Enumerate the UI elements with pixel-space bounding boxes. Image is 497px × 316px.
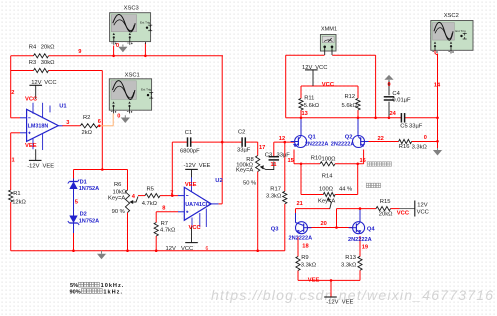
ground XSC1 <box>117 113 130 123</box>
svg-text:R12: R12 <box>345 94 356 100</box>
svg-text:R14: R14 <box>322 173 333 179</box>
transistor Q2 <box>331 118 369 148</box>
svg-text:-12V: -12V <box>326 299 338 305</box>
wire net9 vertical to C1-C2 junction <box>221 56 223 142</box>
svg-text:D2: D2 <box>80 212 87 218</box>
node 20 label <box>321 221 327 227</box>
resistor R12 <box>342 94 361 110</box>
annotation reduce linear region <box>367 162 391 166</box>
svg-text:2N2222A: 2N2222A <box>331 142 355 148</box>
svg-text:VEE: VEE <box>308 277 320 283</box>
svg-text:Key=A: Key=A <box>318 198 335 204</box>
svg-text:Ext Trig: Ext Trig <box>455 29 466 33</box>
svg-text:18: 18 <box>302 244 308 250</box>
wire net8 row <box>156 212 178 223</box>
svg-text:VCC: VCC <box>322 82 335 88</box>
svg-text:R2: R2 <box>83 115 90 121</box>
svg-text:21: 21 <box>297 201 303 207</box>
wire Q4 emitter <box>359 236 361 280</box>
svg-text:3.3kΩ: 3.3kΩ <box>266 193 282 199</box>
svg-text:Q4: Q4 <box>367 227 376 233</box>
svg-text:0: 0 <box>424 135 427 141</box>
svg-text:20kΩ: 20kΩ <box>41 44 55 50</box>
power VCC U2 <box>166 225 209 252</box>
svg-text:Q3: Q3 <box>271 226 280 232</box>
node 2 label <box>11 90 14 96</box>
svg-text:90%: 90% <box>70 289 81 295</box>
wire VCC loop top <box>301 86 358 98</box>
svg-text:1N752A: 1N752A <box>79 219 100 225</box>
svg-text:0: 0 <box>116 43 119 49</box>
svg-text:VEE: VEE <box>199 163 211 169</box>
wire C4 stem upper <box>388 81 390 96</box>
oscilloscope XSC2 <box>431 13 473 53</box>
svg-text:0.01µF: 0.01µF <box>392 98 411 104</box>
wire Q2 emitter <box>363 150 365 164</box>
svg-text:R15: R15 <box>380 199 391 205</box>
svg-text:0: 0 <box>388 82 391 88</box>
svg-text:50 %: 50 % <box>243 180 256 186</box>
svg-text:VCC: VCC <box>189 225 202 231</box>
node 24 label <box>390 111 397 117</box>
ground above C4 <box>384 75 393 88</box>
wire R14 loop <box>301 164 358 195</box>
svg-text:12V: 12V <box>31 80 41 86</box>
wire net1 column <box>11 133 20 251</box>
svg-text:C1: C1 <box>185 130 192 136</box>
svg-text:3.3kΩ: 3.3kΩ <box>341 263 357 269</box>
wire net9 top row <box>11 55 223 57</box>
svg-text:R4: R4 <box>29 44 37 50</box>
ground right column <box>424 135 442 156</box>
annotation adjust symmetry <box>366 183 380 187</box>
power VEE U2 <box>184 163 211 188</box>
svg-text:D1: D1 <box>80 179 87 185</box>
svg-text:VCC: VCC <box>181 246 193 252</box>
wire R8 bottom <box>257 172 259 251</box>
svg-text:R7: R7 <box>161 221 168 227</box>
transistor Q4 <box>348 209 375 243</box>
annotation frequency note line2 <box>70 289 124 296</box>
svg-text:90 %: 90 % <box>112 209 125 215</box>
annotation frequency note line1 <box>70 282 124 289</box>
svg-text:Ext Trig: Ext Trig <box>140 21 151 25</box>
svg-text:R6: R6 <box>114 182 121 188</box>
node 19 label <box>362 245 368 251</box>
wire net12 row <box>274 141 295 143</box>
svg-text:24: 24 <box>390 111 397 117</box>
svg-text:-12V: -12V <box>27 163 39 169</box>
svg-text:2kΩ: 2kΩ <box>82 130 93 136</box>
svg-text:VEE: VEE <box>25 143 37 149</box>
svg-text:12V: 12V <box>166 246 176 252</box>
node 22 label <box>378 136 384 142</box>
wire bottom rail <box>11 250 285 252</box>
node 13 label <box>302 111 308 117</box>
multimeter XMM1 <box>320 26 337 55</box>
wire XSC3 A stub wire <box>113 46 115 56</box>
resistor R15 <box>376 199 393 217</box>
wire net15-16 row <box>294 163 364 165</box>
svg-text:5.6kΩ: 5.6kΩ <box>304 103 320 109</box>
svg-text:11: 11 <box>271 162 277 168</box>
svg-text:7: 7 <box>170 191 173 197</box>
svg-text:10kHz.: 10kHz. <box>101 283 125 289</box>
svg-text:12V: 12V <box>302 65 312 71</box>
svg-text:16: 16 <box>360 158 366 164</box>
node 16 label <box>360 158 366 164</box>
svg-text:2N2222A: 2N2222A <box>289 236 313 242</box>
wire U1 output <box>62 125 80 127</box>
power VCC U1 <box>25 80 57 103</box>
wire XMM1 right wire <box>332 55 375 118</box>
wire right column net14 <box>437 54 439 142</box>
wire VEE rail <box>298 280 360 296</box>
svg-text:VCC: VCC <box>44 80 56 86</box>
svg-text:R5: R5 <box>147 186 154 192</box>
zener diode D2 <box>68 212 99 225</box>
svg-text:4.7kΩ: 4.7kΩ <box>160 228 176 234</box>
svg-text:VEE: VEE <box>43 163 55 169</box>
svg-text:12V: 12V <box>417 202 427 208</box>
svg-text:15: 15 <box>288 158 294 164</box>
svg-text:R3: R3 <box>29 60 36 66</box>
svg-text:33µF: 33µF <box>237 148 251 154</box>
wire R12 bottom <box>357 110 359 118</box>
node 9 label <box>78 49 81 55</box>
svg-text:100Ω: 100Ω <box>322 156 337 162</box>
svg-text:44 %: 44 % <box>339 186 352 192</box>
svg-text:2N2222A: 2N2222A <box>305 142 329 148</box>
wire R7 bottom <box>155 236 157 251</box>
svg-text:0: 0 <box>117 113 120 119</box>
node 18 label <box>302 244 308 250</box>
svg-text:C5: C5 <box>400 124 407 130</box>
wire C1 left to net7 <box>172 142 187 196</box>
svg-text:14: 14 <box>434 82 441 88</box>
node 7 label <box>170 191 173 197</box>
svg-text:13: 13 <box>302 111 308 117</box>
node 17 label <box>259 145 265 151</box>
capacitor C3 <box>265 153 290 160</box>
op-amp U1 <box>20 103 67 150</box>
svg-text:R13: R13 <box>345 255 356 261</box>
node 21 label <box>297 201 303 207</box>
wire R3 row <box>11 70 103 72</box>
oscilloscope XSC3 <box>110 6 153 45</box>
wire XSC3 ext stub wire <box>144 42 146 56</box>
svg-text:VCC: VCC <box>25 97 38 103</box>
node 15 label <box>288 158 294 164</box>
zener diode D1 <box>68 179 99 192</box>
svg-text:2: 2 <box>11 90 14 96</box>
svg-text:5%: 5% <box>70 283 78 289</box>
node 11 label <box>271 162 277 168</box>
svg-text:8: 8 <box>162 205 165 211</box>
svg-text:VCC: VCC <box>397 210 410 216</box>
node 4 label <box>132 194 136 200</box>
oscilloscope XSC1 <box>109 72 153 113</box>
wire XMM1 left wire <box>286 55 325 118</box>
svg-text:12kΩ: 12kΩ <box>12 199 26 205</box>
node 8 label <box>162 205 165 211</box>
power VCC right <box>397 201 429 217</box>
svg-text:5.6kΩ: 5.6kΩ <box>342 103 358 109</box>
svg-text:9: 9 <box>78 49 81 55</box>
wire C1-C2 row <box>191 141 242 143</box>
wire net22 row <box>365 141 438 143</box>
svg-text:Key=A: Key=A <box>108 196 125 202</box>
svg-text:R1: R1 <box>13 191 20 197</box>
wire net13-24 row <box>301 117 438 119</box>
svg-text:R11: R11 <box>304 96 314 102</box>
svg-text:C4: C4 <box>392 91 400 97</box>
svg-text:-12V: -12V <box>184 163 196 169</box>
power VEE bottom <box>308 277 354 305</box>
node 1 label <box>12 157 15 163</box>
svg-text:1N752A: 1N752A <box>79 186 100 192</box>
potentiometer R6 <box>108 182 138 215</box>
svg-text:6: 6 <box>206 246 209 252</box>
svg-text:LM318N: LM318N <box>28 124 49 130</box>
ground XSC3 <box>116 43 128 52</box>
svg-text:1kHz.: 1kHz. <box>103 289 123 295</box>
svg-text:UA741CD: UA741CD <box>185 202 210 208</box>
svg-text:R17: R17 <box>270 187 281 193</box>
wire net20 row <box>308 227 353 229</box>
wire R6 branch <box>127 170 129 251</box>
resistor R11 <box>299 96 320 110</box>
wire Q3 emitter <box>297 236 299 280</box>
wire diode loop top <box>74 169 128 171</box>
wire diode branch <box>73 170 75 251</box>
capacitor C2 <box>237 130 251 154</box>
resistor R7 <box>154 221 176 236</box>
svg-text:C3: C3 <box>265 153 272 159</box>
capacitor C4 <box>384 91 411 104</box>
svg-text:22: 22 <box>378 136 384 142</box>
capacitor C1 <box>180 130 200 154</box>
wire C2 right to R8 <box>245 142 257 155</box>
svg-text:5: 5 <box>75 199 78 205</box>
svg-text:Ext Trig: Ext Trig <box>141 88 152 92</box>
svg-text:XMM1: XMM1 <box>321 26 337 32</box>
svg-text:U1: U1 <box>59 103 67 109</box>
wire R11 bottom <box>300 110 302 118</box>
transistor Q1 <box>291 118 329 148</box>
op-amp U2 <box>178 177 223 227</box>
wire C4 stem lower <box>388 102 390 118</box>
svg-text:3.3kΩ: 3.3kΩ <box>301 263 317 269</box>
resistor R2 <box>80 115 98 136</box>
transistor Q3 <box>271 213 312 242</box>
svg-text:VEE: VEE <box>185 182 197 188</box>
svg-text:30kΩ: 30kΩ <box>41 60 55 66</box>
svg-text:6: 6 <box>98 119 101 125</box>
node 12 label <box>279 136 285 142</box>
svg-text:Q1: Q1 <box>308 134 317 140</box>
svg-text:U2: U2 <box>215 178 222 184</box>
capacitor C5 <box>400 113 422 130</box>
resistor R9 <box>296 255 317 270</box>
svg-text:R16: R16 <box>399 144 410 150</box>
svg-text:C2: C2 <box>238 130 245 136</box>
svg-text:20: 20 <box>321 221 327 227</box>
wire net4 to R5 <box>138 195 145 197</box>
svg-text:VCC: VCC <box>417 210 429 216</box>
wire U2 output vertical <box>221 142 223 204</box>
svg-text:3: 3 <box>66 120 69 126</box>
resistor R4 <box>29 44 55 58</box>
svg-text:VEE: VEE <box>342 299 354 305</box>
watermark <box>211 287 494 303</box>
potentiometer R14 <box>318 173 352 208</box>
svg-text:3.3kΩ: 3.3kΩ <box>412 145 428 151</box>
wire net21 row <box>296 209 331 214</box>
wire net20 to R15 row <box>337 209 377 228</box>
svg-text:12: 12 <box>279 136 285 142</box>
ground main rail <box>97 251 106 260</box>
svg-text:10kΩ: 10kΩ <box>113 189 127 195</box>
wire R15 to VCC <box>391 208 415 210</box>
resistor R10 <box>311 155 336 166</box>
svg-text:19: 19 <box>362 245 368 251</box>
power VEE U1 <box>25 143 54 169</box>
wire left column net2 <box>11 56 20 118</box>
resistor R17 <box>266 187 287 204</box>
svg-text:XSC2: XSC2 <box>444 13 459 19</box>
node 5 label <box>75 199 78 205</box>
svg-text:1: 1 <box>12 157 15 163</box>
svg-text:Q2: Q2 <box>345 134 353 140</box>
svg-text:20kΩ: 20kΩ <box>379 212 393 218</box>
svg-text:R10: R10 <box>311 155 322 161</box>
wire C3 stem <box>273 142 275 156</box>
wire net6 orange <box>98 114 113 128</box>
node 14 label <box>434 82 441 88</box>
node 6 label <box>98 119 101 125</box>
wire XSC2 A stub <box>435 51 438 56</box>
wire R17 column lower <box>284 204 286 251</box>
resistor R3 <box>29 60 55 73</box>
svg-text:XSC3: XSC3 <box>124 6 139 12</box>
svg-text:XSC1: XSC1 <box>125 72 140 78</box>
svg-text:2N2222A: 2N2222A <box>348 237 372 243</box>
svg-text:VCC: VCC <box>315 65 327 71</box>
svg-text:33µF: 33µF <box>409 124 423 130</box>
wire R3 to diode loop <box>101 71 103 170</box>
resistor R5 <box>142 186 160 207</box>
svg-text:Key=A: Key=A <box>236 168 253 174</box>
potentiometer R8 <box>236 156 274 187</box>
svg-text:100Ω: 100Ω <box>319 186 334 192</box>
wire R5 to U2 minus <box>160 195 178 197</box>
svg-text:4.7kΩ: 4.7kΩ <box>142 201 158 207</box>
wire Q1 emitter <box>293 150 295 164</box>
svg-text:17: 17 <box>259 145 265 151</box>
wire R17 column upper / net12 drop <box>284 142 286 191</box>
node 3 label <box>66 120 69 126</box>
power VCC R11R12 <box>302 65 335 88</box>
svg-text:R9: R9 <box>301 255 308 261</box>
resistor R16 <box>399 139 428 150</box>
resistor R13 <box>341 255 362 270</box>
resistor R1 <box>9 190 27 205</box>
svg-text:6800pF: 6800pF <box>180 149 200 155</box>
